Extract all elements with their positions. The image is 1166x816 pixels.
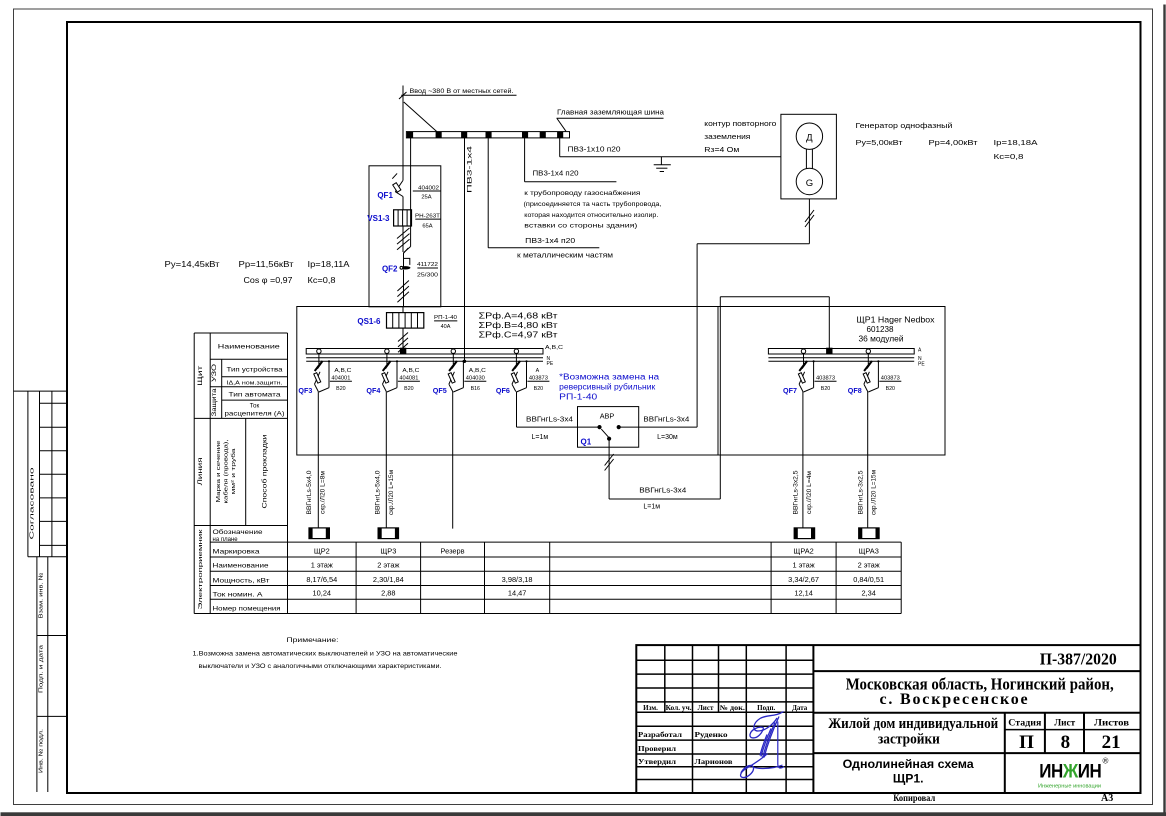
svg-text:Номер помещения: Номер помещения (213, 605, 282, 612)
svg-text:0,84/0,51: 0,84/0,51 (853, 575, 884, 584)
svg-text:2,34: 2,34 (861, 589, 875, 598)
svg-text:Инв. № подл.: Инв. № подл. (38, 729, 44, 773)
svg-text:ПВ3-1x10 п20: ПВ3-1x10 п20 (568, 146, 621, 153)
svg-text:выключатели и УЗО с аналогичны: выключатели и УЗО с аналогичными отключа… (199, 663, 442, 670)
svg-text:Подп.: Подп. (757, 704, 775, 712)
svg-text:Q1: Q1 (581, 438, 592, 447)
svg-text:Резерв: Резерв (441, 546, 465, 555)
svg-text:404002: 404002 (418, 185, 439, 191)
svg-text:QF4: QF4 (366, 386, 381, 395)
svg-text:QF3: QF3 (298, 386, 312, 395)
svg-text:Лист: Лист (698, 704, 714, 712)
svg-text:Согласовано: Согласовано (30, 468, 36, 540)
svg-text:IΔ,А ном.защитн.: IΔ,А ном.защитн. (227, 381, 283, 387)
svg-text:Способ прокладки: Способ прокладки (262, 434, 269, 509)
svg-text:В20: В20 (534, 386, 543, 392)
svg-text:Обозначение: Обозначение (213, 530, 264, 536)
svg-text:L=1м: L=1м (532, 434, 549, 441)
svg-text:QF7: QF7 (783, 386, 797, 395)
svg-text:ВВГнгLs-5х4,0: ВВГнгLs-5х4,0 (307, 470, 313, 515)
svg-text:ЩР3: ЩР3 (380, 546, 396, 555)
svg-text:2,88: 2,88 (381, 589, 395, 598)
svg-text:40А: 40А (441, 324, 451, 330)
svg-text:А,В,С: А,В,С (334, 368, 351, 374)
svg-text:В20: В20 (886, 386, 895, 392)
svg-text:к металлическим частям: к металлическим частям (517, 253, 613, 260)
svg-text:Наименование: Наименование (213, 563, 270, 570)
svg-text:2 этаж: 2 этаж (858, 561, 880, 570)
svg-text:Iр=18,11А: Iр=18,11А (308, 260, 351, 269)
svg-text:Iр=18,18А: Iр=18,18А (994, 138, 1038, 147)
svg-text:кабеля (провода),: кабеля (провода), (224, 439, 230, 504)
svg-text:25/300: 25/300 (417, 273, 438, 279)
svg-text:2 этаж: 2 этаж (377, 561, 399, 570)
svg-text:QF2: QF2 (382, 264, 398, 273)
svg-text:2,30/1,84: 2,30/1,84 (373, 575, 404, 584)
svg-text:QF6: QF6 (496, 386, 510, 395)
svg-text:ЩР1 Hager Nedbox: ЩР1 Hager Nedbox (857, 316, 935, 325)
svg-text:Ток: Ток (250, 403, 260, 410)
svg-text:ЩР2: ЩР2 (314, 546, 330, 555)
svg-text:ВВГнгLs-3х2,5: ВВГнгLs-3х2,5 (794, 470, 800, 515)
svg-text:Копировал: Копировал (893, 793, 935, 803)
svg-text:Стадия: Стадия (1008, 719, 1041, 729)
svg-text:с. Воскресенское: с. Воскресенское (880, 691, 1030, 708)
svg-text:Ру=14,45кВт: Ру=14,45кВт (165, 260, 220, 269)
svg-text:Листов: Листов (1094, 719, 1129, 729)
svg-text:Дата: Дата (792, 704, 808, 712)
svg-text:Защита: Защита (212, 388, 218, 417)
svg-text:3,34/2,67: 3,34/2,67 (788, 575, 819, 584)
svg-text:1 этаж: 1 этаж (311, 561, 333, 570)
svg-text:Примечание:: Примечание: (287, 637, 339, 644)
svg-text:QF1: QF1 (377, 191, 393, 200)
svg-text:Проверил: Проверил (638, 745, 676, 753)
svg-text:скр./Л20 L=15м: скр./Л20 L=15м (872, 470, 878, 515)
svg-text:Ток номин. А: Ток номин. А (213, 591, 264, 598)
svg-text:Руденко: Руденко (695, 731, 729, 739)
svg-text:1 этаж: 1 этаж (793, 561, 815, 570)
svg-text:УЗО: УЗО (212, 364, 218, 382)
svg-text:QF8: QF8 (848, 386, 862, 395)
svg-text:QF5: QF5 (433, 386, 447, 395)
svg-text:ВВГнгLs-3х4: ВВГнгLs-3х4 (643, 416, 689, 423)
svg-text:25А: 25А (421, 195, 431, 201)
svg-text:*Возможна замена на: *Возможна замена на (559, 373, 660, 382)
svg-text:Главная заземляющая шина: Главная заземляющая шина (557, 108, 664, 117)
svg-text:ИНЖИН: ИНЖИН (1039, 762, 1101, 783)
svg-text:Ларионов: Ларионов (695, 758, 733, 766)
svg-text:В20: В20 (336, 386, 345, 392)
svg-text:В20: В20 (404, 386, 413, 392)
svg-text:12,14: 12,14 (794, 589, 813, 598)
svg-text:ПВ3-1x4 п20: ПВ3-1x4 п20 (525, 238, 575, 245)
svg-text:1.Возможна замена автоматическ: 1.Возможна замена автоматических выключа… (193, 650, 458, 658)
svg-text:Рр=4,00кВт: Рр=4,00кВт (929, 138, 979, 147)
svg-text:Ввод ~380 В от местных сетей.: Ввод ~380 В от местных сетей. (410, 87, 514, 95)
svg-text:В20: В20 (821, 386, 830, 392)
svg-text:ПВ3-1x4: ПВ3-1x4 (467, 145, 473, 193)
svg-text:Д: Д (806, 133, 813, 144)
svg-text:14,47: 14,47 (508, 589, 527, 598)
svg-text:21: 21 (1102, 732, 1121, 753)
svg-text:В16: В16 (471, 386, 480, 392)
svg-text:№ док.: № док. (719, 704, 745, 712)
svg-text:АВР: АВР (600, 412, 615, 421)
svg-text:Щит: Щит (197, 366, 204, 386)
svg-text:G: G (806, 178, 813, 189)
svg-text:контур повторного: контур повторного (704, 119, 776, 128)
svg-text:РП-1-40: РП-1-40 (434, 315, 457, 321)
svg-text:Генератор однофазный: Генератор однофазный (856, 121, 953, 130)
svg-text:Кс=0,8: Кс=0,8 (994, 152, 1024, 161)
svg-text:ЩРА2: ЩРА2 (793, 546, 813, 555)
svg-text:РН-263Т: РН-263Т (415, 213, 440, 219)
svg-text:реверсивный рубильник: реверсивный рубильник (559, 383, 656, 392)
svg-text:А,В,С: А,В,С (545, 345, 564, 351)
svg-text:8: 8 (1061, 732, 1071, 753)
svg-text:601238: 601238 (867, 325, 894, 334)
svg-text:А: А (918, 347, 922, 353)
svg-text:ΣРф.В=4,80 кВт: ΣРф.В=4,80 кВт (479, 321, 558, 330)
svg-text:Лист: Лист (1054, 719, 1075, 729)
svg-text:®: ® (1103, 757, 1109, 766)
svg-text:QS1-6: QS1-6 (357, 317, 381, 326)
svg-text:А: А (536, 368, 540, 374)
svg-text:L=30м: L=30м (657, 434, 678, 441)
svg-text:Однолинейная схема: Однолинейная схема (843, 757, 974, 771)
svg-text:Рр=11,56кВт: Рр=11,56кВт (239, 260, 294, 269)
svg-text:Наименование: Наименование (218, 344, 280, 351)
svg-text:VS1-3: VS1-3 (367, 214, 390, 223)
svg-text:скр./Л20 L=8м: скр./Л20 L=8м (321, 471, 327, 514)
svg-text:А,В,С: А,В,С (469, 368, 486, 374)
svg-text:ΣРф.А=4,68 кВт: ΣРф.А=4,68 кВт (479, 312, 558, 321)
svg-text:Мощность, кВт: Мощность, кВт (213, 577, 270, 584)
svg-text:Подп. и дата: Подп. и дата (38, 644, 44, 693)
svg-text:3,98/3,18: 3,98/3,18 (502, 575, 533, 584)
svg-text:застройки: застройки (878, 732, 940, 748)
svg-text:ΣРф.С=4,97 кВт: ΣРф.С=4,97 кВт (479, 331, 558, 340)
svg-text:А3: А3 (1101, 793, 1113, 804)
svg-text:ВВГнгLs-3х2,5: ВВГнгLs-3х2,5 (858, 470, 864, 515)
svg-text:Линия: Линия (197, 457, 204, 486)
svg-text:Тип автомата: Тип автомата (229, 391, 282, 398)
svg-text:ВВГнгLs-3х4: ВВГнгLs-3х4 (639, 488, 686, 495)
svg-text:Электроприемник: Электроприемник (198, 529, 204, 610)
svg-text:Изм.: Изм. (643, 704, 658, 712)
svg-text:ЩР1.: ЩР1. (893, 772, 924, 786)
svg-text:П-387/2020: П-387/2020 (1040, 649, 1117, 668)
svg-text:L=1м: L=1м (643, 504, 660, 511)
svg-text:скр./Л20 L=4м: скр./Л20 L=4м (807, 471, 813, 514)
svg-text:36 модулей: 36 модулей (859, 335, 904, 344)
svg-text:ВВГнгLs-3х4: ВВГнгLs-3х4 (526, 416, 573, 423)
svg-text:Марка и сечение: Марка и сечение (216, 441, 222, 503)
svg-text:411722: 411722 (417, 262, 438, 268)
svg-text:мм² и труба: мм² и труба (231, 447, 237, 494)
svg-text:Взам. инв. №: Взам. инв. № (38, 573, 44, 619)
svg-text:PE: PE (918, 361, 925, 367)
svg-text:ЩРА3: ЩРА3 (858, 546, 878, 555)
svg-text:65А: 65А (422, 223, 432, 229)
svg-text:Разработал: Разработал (638, 731, 682, 739)
svg-text:Ру=5,00кВт: Ру=5,00кВт (856, 138, 904, 147)
svg-text:10,24: 10,24 (313, 589, 332, 598)
svg-text:вставки со стороны здания): вставки со стороны здания) (524, 223, 637, 230)
svg-text:Утвердил: Утвердил (638, 758, 676, 766)
svg-text:Тип устройства: Тип устройства (227, 366, 284, 373)
svg-text:Кол. уч.: Кол. уч. (666, 704, 692, 712)
svg-text:PE: PE (547, 361, 554, 367)
svg-text:Жилой дом индивидуальной: Жилой дом индивидуальной (828, 716, 998, 732)
svg-text:Маркировка: Маркировка (213, 548, 261, 555)
svg-text:(присоединяется та часть трубо: (присоединяется та часть трубопровода, (524, 200, 662, 208)
svg-text:РП-1-40: РП-1-40 (559, 393, 598, 402)
svg-text:ПВ3-1x4 п20: ПВ3-1x4 п20 (533, 170, 579, 177)
svg-text:А,В,С: А,В,С (402, 368, 419, 374)
svg-text:заземления: заземления (704, 132, 750, 141)
svg-text:ВВГнгLs-5х4,0: ВВГнгLs-5х4,0 (376, 470, 382, 515)
svg-text:П: П (1019, 732, 1034, 753)
svg-text:Инженерные инновации: Инженерные инновации (1038, 784, 1101, 790)
svg-text:Кс=0,8: Кс=0,8 (308, 276, 336, 285)
svg-text:расцепителя (А): расцепителя (А) (225, 411, 285, 418)
svg-text:скр./Л20 L=15м: скр./Л20 L=15м (389, 470, 395, 515)
svg-text:Cos φ =0,97: Cos φ =0,97 (244, 276, 293, 285)
svg-text:к трубопроводу газоснабжения: к трубопроводу газоснабжения (524, 189, 640, 197)
svg-text:которая находится относительно: которая находится относительно изолир. (524, 212, 658, 219)
svg-text:8,17/6,54: 8,17/6,54 (306, 575, 337, 584)
svg-text:Rз=4 Ом: Rз=4 Ом (704, 145, 739, 154)
